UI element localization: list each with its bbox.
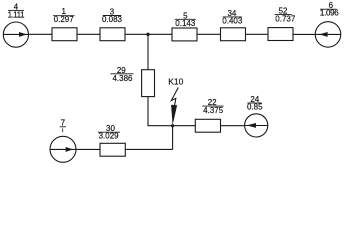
- resistor 30: [100, 143, 125, 156]
- resistor 52: [268, 28, 293, 41]
- label 3 / 0.083: [102, 7, 123, 24]
- resistor 34: [221, 28, 246, 41]
- svg-text:K10: K10: [168, 76, 183, 86]
- label 29 / 4.386: [110, 66, 133, 83]
- resistor 5: [172, 28, 197, 41]
- svg-text:0.083: 0.083: [102, 15, 123, 24]
- wire: [77, 33, 100, 35]
- source G7 arrow: [50, 147, 76, 152]
- resistor 22: [195, 119, 220, 132]
- resistor 29: [142, 70, 155, 97]
- wire: [221, 125, 245, 127]
- source G24: [245, 114, 268, 137]
- label 30 / 3.029: [98, 124, 120, 140]
- wire: [29, 33, 53, 35]
- label 4 / 1.111: [8, 2, 25, 19]
- source G4: [3, 22, 28, 47]
- svg-text:0.297: 0.297: [54, 15, 75, 24]
- wire: [148, 97, 195, 126]
- node junction K10: [171, 124, 174, 127]
- svg-text:7: 7: [61, 119, 66, 128]
- wire: [125, 33, 172, 35]
- svg-text:3.029: 3.029: [99, 132, 120, 141]
- label 5 / 0.143: [175, 11, 196, 28]
- source G6 arrow: [315, 32, 340, 37]
- resistor 3: [100, 28, 125, 41]
- label 52 / 0.737: [275, 7, 296, 24]
- svg-text:1.096: 1.096: [320, 8, 339, 17]
- source G7: [50, 136, 76, 162]
- wire down-leg: [172, 126, 174, 150]
- label 6 / 1.096: [320, 1, 339, 17]
- node junction top: [146, 33, 149, 36]
- wire: [246, 33, 269, 35]
- label 1 / 0.297: [53, 7, 75, 24]
- label 34 / 0.403: [222, 9, 243, 26]
- label 7: [60, 119, 66, 133]
- source G6: [315, 22, 341, 48]
- resistor 1: [52, 28, 77, 41]
- svg-text:4.375: 4.375: [203, 106, 224, 115]
- wire: [197, 33, 221, 35]
- svg-text:1.111: 1.111: [8, 10, 25, 19]
- source G4 arrow: [3, 32, 28, 37]
- svg-text:0.737: 0.737: [275, 15, 296, 24]
- label 22 / 4.375: [202, 98, 223, 115]
- svg-text:0.143: 0.143: [175, 19, 196, 28]
- wire: [76, 148, 100, 150]
- wire: [293, 33, 315, 35]
- fault K10 lightning bolt: [171, 88, 178, 126]
- label 24 / 0.85: [247, 95, 263, 112]
- wire vertical branch: [147, 34, 149, 69]
- wire: [125, 148, 172, 150]
- svg-text:0.85: 0.85: [247, 103, 263, 112]
- svg-text:4.386: 4.386: [112, 74, 133, 83]
- svg-text:0.403: 0.403: [222, 17, 243, 26]
- source G24 arrow: [245, 123, 268, 128]
